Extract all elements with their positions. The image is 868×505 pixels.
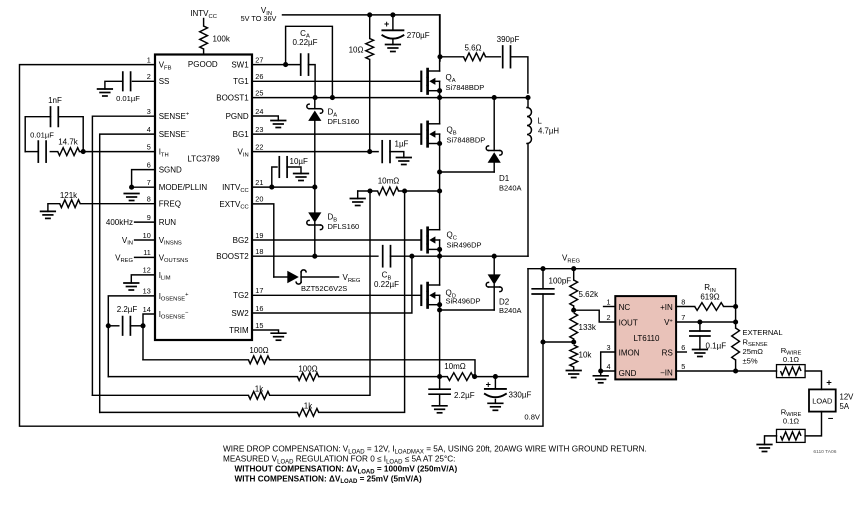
node DA anode at INTVCC — [312, 185, 317, 190]
diode D2 B240A — [486, 256, 521, 315]
svg-text:10Ω: 10Ω — [349, 45, 364, 54]
note wire drop compensation annotation — [223, 445, 647, 485]
svg-text:1nF: 1nF — [48, 96, 62, 105]
svg-text:−IN: −IN — [660, 368, 673, 377]
svg-text:TRIM: TRIM — [229, 326, 249, 335]
wire SW1 over-loop — [286, 26, 333, 97]
svg-text:14: 14 — [143, 305, 151, 314]
svg-text:MODE/PLLIN: MODE/PLLIN — [159, 183, 208, 192]
node V+ 0.1uF junction — [697, 319, 702, 324]
svg-text:SiR496DP: SiR496DP — [446, 297, 481, 306]
node IMON-GND junction — [598, 368, 603, 373]
svg-text:SENSE+: SENSE+ — [159, 112, 190, 121]
resistor 100Ω (IOSENSE-) — [248, 346, 269, 364]
wire NC pin 1 stub — [604, 306, 616, 308]
svg-text:121k: 121k — [60, 191, 78, 200]
net label VREG (rail) — [562, 254, 580, 265]
wire LOAD to RWIRE2 — [805, 412, 821, 436]
svg-text:133k: 133k — [579, 323, 597, 332]
wire SS pin 2 — [133, 80, 156, 82]
wire VREG rail — [528, 268, 736, 270]
node QC source at SW2 — [437, 254, 442, 259]
capacitor CB 0.22µF (bootstrap 2) — [374, 246, 399, 290]
node inductor top at SW1 — [525, 95, 530, 100]
capacitor 0.1µF (V+) — [690, 322, 726, 351]
svg-text:NC: NC — [619, 303, 631, 312]
resistor 10k (FB bottom) — [570, 345, 593, 371]
svg-text:IMON: IMON — [619, 349, 640, 358]
svg-text:2: 2 — [606, 313, 610, 322]
svg-text:100Ω: 100Ω — [298, 365, 317, 374]
wire SENSE+ riser — [270, 191, 370, 395]
wire V+ pin 7 — [676, 321, 736, 323]
svg-text:PGND: PGND — [226, 112, 249, 121]
capacitor 0.01µF (soft-start) — [105, 72, 140, 103]
wire SW2 node rail — [391, 255, 529, 257]
svg-text:SiR496DP: SiR496DP — [447, 240, 482, 249]
svg-text:0.22µF: 0.22µF — [292, 38, 317, 47]
resistor 10mΩ (output current sense) — [444, 362, 473, 381]
node 330uF at VOUT — [493, 374, 498, 379]
capacitor 0.01µF (compensation) — [25, 131, 58, 162]
net label INTVCC — [190, 9, 217, 26]
net label VIN 5V TO 36V — [241, 6, 277, 23]
svg-text:5.62k: 5.62k — [579, 290, 600, 299]
wire sense ground tap — [357, 191, 359, 199]
wire VOUT riser — [527, 269, 529, 377]
svg-text:17: 17 — [255, 286, 263, 295]
ground (ILIM) — [124, 283, 139, 290]
ground (TRIM) — [271, 333, 286, 340]
resistor 5.62k (FB top) — [570, 269, 599, 311]
svg-text:25mΩ: 25mΩ — [743, 347, 764, 356]
ground (load return) — [757, 445, 772, 452]
capacitor 100pF (feedback) — [532, 269, 571, 342]
wire SENSE+ bottom — [92, 394, 248, 396]
ground (LT6110 GND) — [593, 376, 608, 383]
wire PGND pin 24 — [252, 116, 278, 121]
resistor RWIRE 0.1Ω (supply lead) — [777, 346, 806, 378]
svg-text:10k: 10k — [579, 351, 593, 360]
resistor 121k (FREQ) — [48, 191, 155, 211]
node ITH junction — [81, 149, 86, 154]
svg-text:LTC3789: LTC3789 — [187, 154, 220, 163]
svg-text:−: − — [828, 414, 834, 425]
capacitor 270µF (VIN bulk) — [382, 15, 429, 45]
svg-text:21: 21 — [255, 178, 263, 187]
svg-text:+: + — [486, 380, 491, 390]
svg-text:100Ω: 100Ω — [249, 346, 268, 355]
svg-text:3: 3 — [606, 343, 610, 352]
resistor 100k (PGOOD pull-up) — [200, 26, 231, 55]
svg-text:0.8V: 0.8V — [524, 413, 541, 422]
node SW1-loop junction — [283, 62, 288, 67]
svg-text:Si7848BDP: Si7848BDP — [446, 83, 485, 92]
wire SENSE- riser — [319, 191, 405, 412]
node RIN at sense node — [733, 304, 738, 309]
ground (SS cap) — [98, 89, 113, 96]
node D2 anode at SW2 — [492, 254, 497, 259]
svg-text:13: 13 — [143, 287, 151, 296]
transistor QD SiR496DP — [421, 256, 480, 376]
node QD source at VOUT — [437, 374, 442, 379]
svg-text:14.7k: 14.7k — [58, 137, 79, 146]
wire kelvin- jog — [270, 360, 475, 377]
svg-text:LT6110: LT6110 — [634, 334, 660, 343]
svg-text:Si7848BDP: Si7848BDP — [447, 135, 486, 144]
svg-text:12V: 12V — [840, 392, 855, 401]
resistor RSENSE 25mΩ external — [732, 328, 783, 371]
wire MODE/PLLIN pin 7 — [132, 186, 155, 188]
wire ILIM pin 12 — [131, 275, 155, 283]
svg-text:DFLS160: DFLS160 — [328, 117, 360, 126]
svg-text:BZT52C6V2S: BZT52C6V2S — [301, 284, 347, 293]
node VIN-270uF junction — [390, 12, 395, 17]
svg-text:8: 8 — [147, 195, 151, 204]
wire VOUT line to caps — [473, 376, 528, 378]
svg-text:+: + — [826, 377, 832, 388]
capacitor 330µF (output bulk) — [485, 377, 532, 404]
svg-text:BOOST2: BOOST2 — [216, 252, 249, 261]
capacitor 10µF (INTVCC) — [272, 157, 308, 187]
wire RWIRE1 to LOAD — [805, 371, 821, 389]
svg-text:0.1Ω: 0.1Ω — [783, 355, 800, 364]
node V+ at sense node — [733, 319, 738, 324]
ground (0.1µF) — [693, 350, 708, 357]
node INTVCC-10uF junction — [269, 185, 274, 190]
svg-text:2: 2 — [147, 72, 151, 81]
capacitor 2.2µF (output) — [429, 377, 475, 406]
net label 6110 TA06 — [813, 449, 836, 455]
svg-text:EXTERNAL: EXTERNAL — [743, 328, 783, 337]
resistor 100Ω (IOSENSE+) — [297, 365, 318, 381]
node sense- tap — [402, 188, 407, 193]
node kelvin- at 10mΩ — [472, 374, 477, 379]
svg-text:1µF: 1µF — [395, 140, 409, 149]
svg-text:100pF: 100pF — [549, 276, 572, 285]
svg-text:BG2: BG2 — [233, 236, 250, 245]
svg-text:0.01µF: 0.01µF — [116, 94, 140, 103]
node RSENSE bottom at -IN — [733, 368, 738, 373]
node 100pF at VREG — [540, 266, 545, 271]
wire VIN pin 22 — [252, 151, 378, 153]
svg-text:16: 16 — [255, 304, 263, 313]
capacitor CA 0.22µF (bootstrap 1) — [292, 29, 317, 98]
net label VREG (zener) — [343, 273, 361, 284]
svg-text:10mΩ: 10mΩ — [444, 362, 466, 371]
node SW2 pin riser junction — [409, 254, 414, 259]
svg-text:2.2µF: 2.2µF — [454, 391, 475, 400]
wire BG2 to QC gate — [252, 239, 420, 241]
wire IOUT route — [574, 310, 616, 322]
svg-text:23: 23 — [255, 125, 263, 134]
node D1 cathode at SW1 — [492, 95, 497, 100]
wire FB node link — [543, 341, 574, 343]
svg-text:24: 24 — [255, 107, 263, 116]
node SW1 loop bottom junction — [330, 95, 335, 100]
ground (10mΩ sense) — [350, 199, 365, 206]
diode DA DFLS160 (boost refresh 1) — [307, 98, 359, 188]
svg-text:D1: D1 — [499, 174, 510, 183]
svg-text:5: 5 — [147, 142, 151, 151]
wire RWIRE2 to ground — [765, 436, 777, 445]
transistor QC SiR496DP — [421, 191, 481, 256]
op-amp U2 LT6110 cable drop compensator — [606, 296, 685, 379]
svg-text:4: 4 — [606, 362, 610, 371]
svg-text:18: 18 — [255, 247, 263, 256]
wire TG2 to QD gate — [252, 294, 420, 296]
svg-text:L: L — [538, 117, 543, 126]
svg-text:400kHz: 400kHz — [106, 218, 133, 227]
svg-text:LOAD: LOAD — [812, 396, 832, 405]
svg-text:BOOST1: BOOST1 — [216, 94, 249, 103]
svg-text:5A: 5A — [840, 402, 850, 411]
wire kelvin- line — [143, 359, 248, 361]
svg-text:0.22µF: 0.22µF — [374, 280, 399, 289]
svg-text:15: 15 — [255, 321, 263, 330]
wire IOSENSE+ pin 13 — [108, 296, 155, 377]
svg-text:26: 26 — [255, 72, 263, 81]
ground (PGND) — [271, 121, 286, 128]
svg-text:BG1: BG1 — [233, 130, 250, 139]
svg-text:27: 27 — [255, 55, 263, 64]
svg-text:5.6Ω: 5.6Ω — [464, 44, 481, 53]
svg-text:3: 3 — [147, 107, 151, 116]
node 5.62k-133k junction — [571, 308, 576, 313]
op-amp U1 LTC3789 buck-boost controller — [143, 55, 264, 341]
node QB source at sense — [437, 188, 442, 193]
svg-text:DFLS160: DFLS160 — [328, 222, 360, 231]
wire -IN pin 5 — [676, 370, 776, 372]
transistor QB Si7848BDP — [421, 98, 485, 191]
wire IMON pin 3 — [601, 352, 616, 371]
ground (10µF) — [294, 174, 309, 181]
wire SENSE+ pin 3 — [92, 116, 155, 395]
svg-text:SS: SS — [159, 77, 170, 86]
svg-text:SW2: SW2 — [231, 309, 249, 318]
ground (1µF) — [397, 158, 412, 165]
wire INTVCC pin 21 — [252, 186, 315, 188]
svg-text:19: 19 — [255, 231, 263, 240]
node FB node left — [540, 339, 545, 344]
svg-text:390pF: 390pF — [497, 35, 520, 44]
capacitor 390pF (snubber) — [497, 35, 528, 93]
svg-text:B240A: B240A — [499, 306, 522, 315]
wire SW1 node rail — [315, 97, 528, 99]
net label VIN (VINSNS) — [122, 236, 155, 247]
svg-text:25: 25 — [255, 89, 263, 98]
wire SENSE- bottom — [100, 411, 298, 413]
resistor 10mΩ (inductor current sense) — [358, 177, 440, 195]
svg-text:270µF: 270µF — [407, 31, 430, 40]
wire GND stem — [600, 371, 602, 376]
svg-text:8: 8 — [681, 297, 685, 306]
node SGND-MODE junction — [129, 185, 134, 190]
wire BOOST2 pin 18 to CB — [252, 255, 378, 257]
transistor QA Si7848BDP — [421, 15, 484, 98]
wire BOOST1 (pin 25) to CA — [252, 97, 315, 99]
wire GND pin 4 — [601, 370, 616, 372]
svg-text:RS: RS — [662, 349, 673, 358]
net label 0.8V — [524, 413, 541, 422]
svg-text:12: 12 — [143, 266, 151, 275]
svg-text:5V TO 36V: 5V TO 36V — [241, 14, 277, 23]
capacitor 1µF (VIN pin) — [382, 140, 408, 163]
svg-text:5: 5 — [681, 362, 685, 371]
ground (330µF) — [488, 403, 503, 410]
node VIN-10ohm junction — [367, 12, 372, 17]
svg-text:D2: D2 — [499, 297, 510, 306]
wire BG1 to QB gate — [252, 133, 420, 135]
node QD source - D2 junction — [437, 307, 442, 312]
node 2.2uF right — [140, 323, 145, 328]
diode D1 B240A — [486, 98, 521, 193]
node QA drain / snubber tap — [437, 54, 442, 59]
resistor 10Ω (VIN filter) — [349, 15, 374, 151]
ground (FREQ 121k) — [41, 211, 56, 218]
wire VREG sense riser — [735, 269, 737, 328]
svg-text:6: 6 — [681, 343, 685, 352]
svg-text:RUN: RUN — [159, 218, 177, 227]
node 5.62k at VREG — [571, 266, 576, 271]
wire VOUT line — [108, 376, 297, 378]
net label VREG (VOUTSNS) — [115, 253, 155, 264]
capacitor 2.2µF (IOSENSE filter) — [108, 305, 143, 335]
wire SENSE- pin 4 — [100, 134, 155, 412]
resistor RWIRE 0.1Ω (return lead) — [777, 407, 806, 442]
inductor L 4.7µH — [527, 98, 559, 257]
svg-text:SENSE−: SENSE− — [159, 130, 190, 139]
wire IOSENSE- pin 14 — [143, 314, 155, 360]
svg-text:22: 22 — [255, 142, 263, 151]
svg-text:0.1Ω: 0.1Ω — [783, 416, 800, 425]
resistor 1k (SENSE-) — [297, 402, 318, 417]
node QB source - D1 junction — [437, 169, 442, 174]
svg-text:7: 7 — [681, 313, 685, 322]
node 10ohm-VINpin junction — [367, 149, 372, 154]
wire SGND pin 6 — [132, 170, 155, 188]
load LOAD 12V 5A — [809, 377, 854, 424]
wire VFB pin 1 feedback loop — [20, 65, 544, 427]
resistor 14.7k (compensation) — [58, 137, 83, 155]
svg-text:B240A: B240A — [499, 184, 522, 193]
svg-text:+: + — [384, 19, 389, 29]
svg-text:619Ω: 619Ω — [700, 293, 719, 302]
svg-text:1k: 1k — [255, 385, 264, 394]
svg-text:4.7µH: 4.7µH — [538, 127, 559, 136]
node CA-BOOST1 junction — [313, 95, 318, 100]
wire SW1 pin 27 to CA — [252, 64, 301, 66]
capacitor 1nF (compensation) — [25, 96, 83, 152]
svg-text:0.01µF: 0.01µF — [30, 131, 54, 140]
svg-text:PGOOD: PGOOD — [188, 60, 218, 69]
wire VIN rail — [283, 15, 441, 61]
diode zener BZT52C6V2S — [274, 270, 347, 293]
resistor RIN 619Ω — [676, 283, 736, 310]
resistor 133k (FB mid) — [570, 313, 597, 342]
svg-text:10µF: 10µF — [290, 157, 309, 166]
svg-text:SGND: SGND — [159, 166, 182, 175]
wire VOUT line to 10mΩ — [319, 376, 448, 378]
ground (2.2µF output) — [432, 406, 447, 413]
ground (SGND) — [124, 194, 139, 201]
wire RS pin 6 stub — [676, 351, 686, 353]
wire SW2 pin 16 — [252, 256, 412, 313]
ground (10k) — [566, 371, 581, 378]
svg-text:IOUT: IOUT — [619, 319, 638, 328]
svg-text:330µF: 330µF — [509, 391, 532, 400]
svg-text:±5%: ±5% — [743, 356, 758, 365]
svg-text:1: 1 — [606, 297, 610, 306]
svg-text:2.2µF: 2.2µF — [117, 305, 138, 314]
svg-text:10: 10 — [143, 231, 151, 240]
svg-text:+IN: +IN — [660, 303, 673, 312]
svg-text:100k: 100k — [213, 35, 231, 44]
wire ITH pin 5 — [83, 151, 155, 153]
svg-text:1k: 1k — [304, 402, 313, 411]
node QA source at SW1 — [437, 95, 442, 100]
svg-text:0.1µF: 0.1µF — [706, 342, 727, 351]
ground (270µF) — [386, 45, 401, 52]
wire EXTVCC pin 20 — [252, 204, 274, 277]
svg-text:7: 7 — [147, 178, 151, 187]
wire D2 cathode to QD source — [440, 309, 495, 311]
svg-text:FREQ: FREQ — [159, 200, 181, 209]
node FB node — [571, 339, 576, 344]
svg-text:10mΩ: 10mΩ — [378, 177, 400, 186]
svg-text:GND: GND — [619, 369, 637, 378]
node sense+ tap — [367, 188, 372, 193]
node 2.2uF left — [106, 323, 111, 328]
svg-text:6110 TA06: 6110 TA06 — [813, 449, 836, 455]
svg-text:4: 4 — [147, 125, 151, 134]
node DB cathode at BOOST2 — [312, 254, 317, 259]
svg-text:1: 1 — [147, 55, 151, 64]
wire D1 anode to QB source — [440, 171, 495, 173]
wire TG1 to QA gate — [252, 80, 420, 82]
svg-text:TG2: TG2 — [233, 291, 249, 300]
net label 400kHz (RUN) — [106, 218, 155, 227]
svg-text:20: 20 — [255, 195, 263, 204]
svg-text:11: 11 — [143, 248, 151, 257]
svg-text:TG1: TG1 — [233, 77, 249, 86]
svg-text:6: 6 — [147, 160, 151, 169]
resistor 1k (SENSE+) — [248, 385, 269, 400]
wire TRIM pin 15 — [252, 330, 279, 333]
svg-text:SW1: SW1 — [231, 61, 249, 70]
diode DB DFLS160 (boost refresh 2) — [307, 187, 359, 256]
svg-text:9: 9 — [147, 213, 151, 222]
resistor 5.6Ω (snubber) — [440, 44, 500, 61]
